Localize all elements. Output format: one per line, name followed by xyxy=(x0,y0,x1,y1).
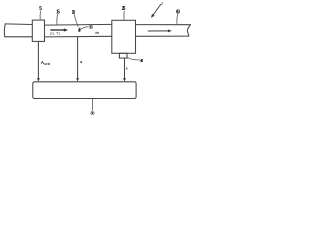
svg-text:AHFM: AHFM xyxy=(41,60,51,66)
svg-text:s: s xyxy=(126,67,128,71)
svg-text:25: 25 xyxy=(122,6,126,12)
svg-text:35: 35 xyxy=(89,25,93,31)
svg-text:30: 30 xyxy=(90,111,95,116)
svg-text:7: 7 xyxy=(161,2,163,6)
svg-text:40: 40 xyxy=(140,58,144,63)
svg-text:p1, T1: p1, T1 xyxy=(50,31,60,35)
svg-text:15: 15 xyxy=(56,10,60,16)
svg-text:10: 10 xyxy=(72,10,76,16)
svg-text:5: 5 xyxy=(39,6,42,12)
svg-text:60: 60 xyxy=(176,9,180,15)
svg-text:ṁ: ṁ xyxy=(95,30,99,35)
svg-text:a: a xyxy=(80,60,83,64)
